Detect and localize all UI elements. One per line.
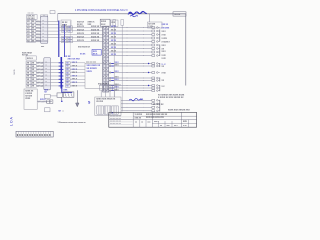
label: wire 5 name [77, 40, 100, 42]
connector Jx pin 9 [152, 55, 160, 57]
connector Jx pin 19 [152, 103, 160, 105]
wire: group1 bottom rule [27, 41, 48, 43]
wire: bus to CN3 row 3 [59, 33, 103, 35]
svg-text:x: x [46, 65, 47, 67]
wire CN1-1 to bus [48, 21, 59, 23]
svg-text:x: x [106, 48, 107, 50]
wire: left drop from rule [57, 14, 59, 22]
label: blue heading above TB2 rows [68, 58, 81, 60]
svg-text:x: x [103, 59, 104, 61]
terminal TB2-7 cells [26, 81, 36, 84]
terminal TB2-4 cells [26, 71, 36, 74]
label: blue feed name [63, 89, 68, 91]
label: wire 2 name [77, 30, 100, 32]
svg-text:x: x [106, 62, 107, 64]
connector CN3 top tab [50, 11, 55, 14]
svg-text:XXX X: XXX X [72, 69, 78, 71]
wire: lower run 3 to J column [109, 72, 152, 74]
note: bottom caption [58, 122, 87, 124]
wire CN1-4 to bus [48, 30, 59, 32]
pin circle lower 4 [109, 77, 111, 79]
svg-text:x: x [103, 27, 104, 29]
svg-text:x: x [46, 81, 47, 83]
wire TB2-5 to CN2 [36, 75, 44, 77]
svg-text:x: x [106, 87, 107, 89]
component K1 box [61, 20, 71, 27]
svg-text:XXX X: XXX X [72, 85, 78, 87]
wire TB2-4 to CN2 [36, 72, 44, 74]
label: row 8 wire name [72, 85, 78, 87]
pin circle lower 8 [109, 90, 111, 92]
pin circle lower 7 [109, 87, 111, 89]
wire CN2-8 to bus [50, 85, 59, 87]
svg-text:XX XX: XX XX [111, 26, 117, 28]
note: text line 2 [158, 97, 184, 99]
svg-text:x: x [46, 84, 47, 86]
svg-text:XXX XXXX XX: XXX XXXX XX [78, 46, 91, 48]
pin circle lower 5 [109, 80, 111, 82]
label: U1 header above box [86, 62, 96, 64]
svg-text:XX XX: XX XX [22, 55, 29, 57]
wire: lower run 5 to J column [109, 80, 152, 82]
pin box row1 b [68, 26, 73, 29]
pin dash blue 8 [59, 85, 64, 87]
svg-text:XXX-X: XXX-X [27, 58, 34, 60]
svg-text:x: x [106, 52, 107, 54]
label: right net name 12 [162, 48, 165, 50]
svg-text:x: x [103, 76, 104, 78]
svg-text:x: x [46, 78, 47, 80]
cable marker W1 [113, 20, 116, 26]
bus: vertical blue cable A upper [58, 21, 60, 58]
node: blue handwritten mark [128, 11, 147, 16]
label: wire tag right of CN3 row 8 [111, 51, 117, 53]
wire: blue feed L-bend [62, 85, 72, 93]
svg-text:XXX XX: XXX XX [135, 118, 142, 120]
label: right net name 1 [162, 24, 169, 26]
connector CN4 pins [47, 100, 53, 104]
wire: P1 to U1 [70, 62, 85, 64]
wire: CN3 row 2 to J column [109, 30, 152, 32]
wire: TR cell drop 3 [109, 90, 111, 97]
wire: P7 to U1 [70, 82, 85, 84]
svg-text:XXXX XX: XXXX XX [91, 37, 100, 39]
svg-text:xx: xx [160, 125, 162, 127]
svg-text:xx x: xx x [174, 125, 178, 127]
pin box P6 [66, 78, 71, 81]
label: blue wire tag [40, 99, 46, 101]
label: wire tag right of CN3 row 4 [111, 37, 117, 39]
svg-text:x: x [106, 69, 107, 71]
component F1 box [45, 94, 51, 98]
connector Jx pin 20 [152, 106, 160, 108]
svg-text:XX XX: XX XX [111, 54, 117, 56]
label: lower run tag 4 [115, 77, 120, 79]
pin circle lower 3 [109, 72, 111, 74]
cable bundle line W1 [113, 25, 115, 97]
wire: P8 to U1 [70, 85, 85, 87]
label: lower run tag 1 [115, 62, 120, 64]
label: blue note below bus [65, 56, 72, 58]
wire TB1-4 to CN1 [36, 30, 41, 32]
pin dash blue 5 [59, 75, 64, 77]
wire TB2-3 to CN2 [36, 68, 44, 70]
wire: TR cell drop 1 [100, 90, 102, 97]
wire TB1-2 to CN1 [36, 24, 41, 26]
legend box NOTE1 [24, 89, 37, 109]
label: right net name 6 [162, 55, 167, 57]
wire: CN3 row 1 to J column [109, 27, 152, 29]
wire CN2-1 to bus [50, 62, 59, 64]
wire: P4 to U1 [70, 72, 85, 74]
pin box row2 b [68, 29, 73, 32]
pin dash blue 4 [59, 72, 64, 74]
svg-text:XXX XX: XXX XX [77, 26, 85, 28]
pin dash blue lower 2 [111, 65, 114, 67]
label: lower run tag 3 [115, 71, 120, 73]
wire: feeder above TR cells [100, 84, 121, 86]
svg-text:x: x [106, 38, 107, 40]
label: lower run tag 6 [115, 84, 120, 86]
svg-text:XX XX: XX XX [111, 51, 117, 53]
label: right net name 9 [162, 86, 166, 88]
svg-text:x: x [103, 41, 104, 43]
connector Jx pin 14 [152, 80, 160, 82]
wire CN1-5 to bus [48, 33, 59, 35]
pin box row4 b [68, 40, 73, 43]
pin circle lower 6 [109, 85, 111, 87]
svg-text:x: x [103, 45, 104, 47]
terminal TB1-2 cells [27, 23, 36, 26]
label: bottom small note blue [58, 111, 64, 113]
svg-text:x: x [106, 59, 107, 61]
connector Jx pin 6 [152, 44, 160, 46]
note: text line 3 [153, 104, 164, 106]
svg-text:x: x [43, 20, 44, 22]
pin box row4 a [62, 40, 67, 43]
svg-text:XXXX XX: XXXX XX [91, 40, 100, 42]
terminal TB2-8 cells [26, 85, 36, 88]
svg-text:x: x [46, 75, 47, 77]
svg-text:XXXX XXX XXXX XXX: XXXX XXX XXXX XXX [146, 117, 165, 119]
connector group bar 3 [159, 63, 161, 67]
label: right net name 14 [162, 58, 167, 60]
svg-text:x: x [103, 52, 104, 54]
label: row 2 wire name [72, 66, 78, 68]
note: text line 1 [158, 95, 185, 97]
svg-text:xxx: xxx [167, 125, 170, 127]
connector CN3 body [103, 26, 109, 92]
node: blue dot under S1 [61, 100, 63, 102]
terminal TB1-3 cells [27, 26, 36, 29]
pin box P4 [66, 71, 71, 74]
connector Jx pin 3 [152, 34, 160, 36]
connector CN1 top cap [41, 15, 48, 18]
svg-text:x: x [103, 66, 104, 68]
pin box P5 [66, 75, 71, 78]
wire TB1-5 to CN1 [36, 33, 41, 35]
label: wire tag right of CN3 row 5 [111, 40, 117, 42]
label: blue cluster box lower-mid [92, 50, 101, 56]
svg-text:XX XXX: XX XXX [27, 18, 35, 20]
connector CN2 body [44, 58, 51, 90]
wire: CN3 row 5 to J column [109, 41, 152, 43]
svg-text:X XXXX XX XXX XXXXX XX: X XXXX XX XXX XXXXX XX [158, 97, 184, 99]
label: right net name 10 [162, 38, 168, 40]
terminal TB1-6 cells [27, 36, 36, 39]
wire: box K4 row 2 to J column [121, 103, 152, 105]
svg-text:x: x [106, 66, 107, 68]
label: right net name 4 [162, 34, 167, 36]
pin dash blue lower 7 [111, 87, 114, 89]
svg-text:x: x [106, 76, 107, 78]
wire TB2-1 to CN2 [36, 62, 44, 64]
wire: box K4 row 4 to J column [121, 110, 152, 112]
terminal block TB2 header box [26, 56, 36, 60]
wire: bus to CN3 row 4 [59, 37, 103, 39]
pin dash blue lower 4 [111, 77, 114, 79]
connector group bar 2 [159, 45, 161, 57]
wire: CN3 row 8 to J column [109, 51, 152, 53]
svg-text:XXX X: XXX X [72, 75, 78, 77]
svg-text:XX-XX: XX-XX [174, 14, 181, 16]
svg-text:XXX XX: XXX XX [77, 30, 85, 32]
svg-text:XX X: XX X [93, 54, 98, 56]
svg-text:XX XXXX: XX XXXX [162, 27, 170, 29]
label: right net name 11 [162, 41, 171, 43]
pin dash blue lower 8 [111, 90, 114, 92]
pin box row2 a [62, 29, 67, 32]
connector Jx pin 2 [152, 30, 160, 32]
wire: P3 to U1 [70, 68, 85, 70]
svg-text:x: x [43, 30, 44, 32]
svg-text:x: x [106, 73, 107, 75]
title block horizontal dividers [109, 116, 197, 123]
connector CN1 body [41, 16, 48, 43]
svg-text:XXXX: XXXX [25, 98, 31, 100]
svg-text:x: x [103, 48, 104, 50]
label: wire 4 name [77, 37, 100, 39]
terminal TB1-4 cells [27, 30, 36, 33]
svg-text:XX XX: XX XX [111, 30, 117, 32]
wire: CN3 row 3 to J column [109, 34, 152, 36]
wire: lower run 1 to J column [109, 63, 152, 65]
svg-text:XX-X: XX-X [101, 24, 106, 26]
wire TB1-1 to CN1 [36, 21, 41, 23]
connector Jx pin 15 [152, 85, 160, 87]
label: right net name 3 [162, 31, 167, 33]
svg-text:XX XXX XX: XX XXX XX [153, 104, 164, 106]
component F2 box [45, 108, 51, 112]
svg-text:x: x [106, 90, 107, 92]
svg-text:X XXX: X XXX [162, 38, 168, 40]
connector group bar 4 [159, 78, 161, 82]
pin dash blue 2 [59, 65, 64, 67]
connector Jx pin 21 [152, 110, 160, 112]
label: right net name 13 [162, 51, 167, 53]
pin box row3 b [68, 36, 73, 39]
wire CN2-2 to bus [50, 65, 59, 67]
wire: bus to CN3 row 5 [59, 40, 103, 42]
junction ticks on wires [127, 27, 144, 111]
title block main title text [146, 114, 168, 119]
svg-text:LOA: LOA [9, 116, 13, 126]
pin dash blue lower 5 [111, 80, 114, 82]
svg-text:XX XX: XX XX [111, 40, 117, 42]
svg-text:11 XXXX: 11 XXXX [135, 114, 143, 116]
svg-text:x: x [106, 45, 107, 47]
wire: drop to J5 area [149, 14, 151, 22]
wire: right border vertical [185, 14, 187, 86]
svg-text:XX XXXXX: XX XXXXX [87, 68, 98, 70]
terminal TB2-6 cells [26, 78, 36, 81]
fuse bank cell 1 [97, 106, 104, 114]
wire: NOTE1 out with hatching [37, 101, 52, 103]
wire: drop from S1 [61, 97, 63, 100]
wire CN2-4 to bus [50, 72, 59, 74]
title block lower cells text [135, 121, 188, 127]
pin dash blue lower 1 [111, 63, 114, 65]
pin box P2 [66, 65, 71, 68]
pin box P3 [66, 68, 71, 71]
connector Jx pin 16 [152, 87, 160, 89]
wire CN1-3 to bus [48, 27, 59, 29]
wire: P6 to U1 [70, 78, 85, 80]
svg-text:x: x [43, 23, 44, 25]
pin dash blue lower 3 [111, 72, 114, 74]
label: S-mark left of K4 [88, 101, 91, 105]
svg-text:XXX XX: XXX XX [77, 33, 85, 35]
connector Jx pin 1 [152, 27, 160, 29]
wire: CN3 row 7 to J column [109, 48, 152, 50]
cable marker W2 [121, 20, 124, 26]
label: right net name 15 [162, 64, 167, 66]
terminal TB1-7 cells [27, 39, 36, 42]
svg-text:x: x [106, 80, 107, 82]
label: U1 text [87, 65, 101, 73]
connector Jx pin 17 [152, 90, 160, 92]
contact S1 box [57, 93, 62, 97]
wire: lower run 7 to J column [109, 87, 152, 89]
label: lower run tag 7 [115, 87, 120, 89]
title block signature rows [110, 116, 133, 126]
contact S2 box with hatch [63, 92, 74, 97]
label: row 3 wire name [72, 69, 78, 71]
svg-text:XX XXX: XX XXX [96, 101, 104, 103]
pin box row3 a [62, 36, 67, 39]
svg-text:XX XX: XX XX [80, 53, 86, 55]
svg-text:x: x [106, 34, 107, 36]
wire TB2-2 to CN2 [36, 65, 44, 67]
svg-text:XXX X: XXX X [72, 82, 78, 84]
pin box P8 [66, 85, 71, 88]
wire: CN3 row 9 to J column [109, 55, 152, 57]
label: lower run tag 8 [115, 89, 120, 91]
label: note above TB1 [28, 12, 34, 14]
svg-text:x: x [43, 39, 44, 41]
svg-text:XXX X: XXX X [72, 66, 78, 68]
terminal TB2-2 cells [26, 65, 36, 68]
wire: P5 to U1 [70, 75, 85, 77]
label: row 5 wire name [72, 75, 78, 77]
svg-text:XXX X: XXX X [40, 99, 46, 101]
label: right net name 7 [162, 66, 165, 68]
svg-text:x: x [106, 55, 107, 57]
svg-text:x: x [103, 80, 104, 82]
svg-text:XXX XXXX XX: XXX XXXX XX [87, 65, 101, 67]
svg-text:XXXX XX: XXXX XX [91, 33, 100, 35]
connector Jx pin 12 [152, 72, 160, 74]
svg-text:x: x [103, 31, 104, 33]
connector Jx pin 11 [152, 65, 160, 67]
revision strip box [16, 131, 53, 137]
svg-text:XXX X: XXX X [72, 62, 78, 64]
pin dash blue 6 [59, 78, 64, 80]
svg-text:XXX X: XXX X [72, 79, 78, 81]
terminal TB2-5 cells [26, 75, 36, 78]
svg-text:xx: xx [141, 122, 143, 124]
wire CN2-5 to bus [50, 75, 59, 77]
wire: P2 to U1 [70, 65, 85, 67]
wire: bus to CN3 row 2 [59, 30, 103, 32]
label: right net name 5 [162, 45, 167, 47]
label: wire tag right of CN3 row 9 [111, 54, 117, 56]
svg-text:x: x [106, 41, 107, 43]
wire CN2-7 to bus [50, 82, 59, 84]
label: lower run tag 5 [115, 79, 120, 81]
wire: lower run 2 to J column [109, 65, 152, 67]
svg-text:x: x [103, 34, 104, 36]
pin dash blue 1 [59, 62, 64, 64]
wire TB1-6 to CN1 [36, 37, 41, 39]
label: row 4 wire name [72, 72, 78, 74]
svg-text:XXX XX XXX: XXX XX XXX [68, 58, 81, 60]
distribution box K4 [95, 97, 121, 115]
label: wire 1 name [77, 26, 100, 28]
svg-text:x: x [46, 71, 47, 73]
label: wire tag right of CN3 row 1 [111, 26, 117, 28]
connector group bar 1 [159, 30, 161, 42]
svg-text:XX XX: XX XX [111, 47, 117, 49]
terminal TB2-1 cells [26, 61, 36, 64]
svg-text:xxx x: xxx x [154, 121, 159, 123]
title block outer frame [109, 112, 197, 127]
svg-text:XXX XXXX XXXX XXX XX: XXX XXXX XXXX XXX XX [146, 114, 168, 116]
connector Jx pin 10 [152, 63, 160, 65]
pin dash blue 7 [59, 82, 64, 84]
component K2 box [111, 20, 118, 27]
note: text line 4 [168, 109, 190, 111]
pin dash blue lower 6 [111, 85, 114, 87]
svg-text:XX XX: XX XX [111, 44, 117, 46]
terminal TB2-3 cells [26, 68, 36, 71]
label: right net name 8 [162, 80, 165, 82]
component box J5 [148, 22, 163, 28]
svg-text:4 PIN WIRE CONN DIAGRAM FOR PA: 4 PIN WIRE CONN DIAGRAM FOR PANEL NO.2 X [75, 9, 128, 12]
svg-text:xx xxx xxx xx: xx xxx xxx xx [110, 123, 121, 125]
svg-text:xxx xxx: xxx xxx [28, 12, 34, 14]
label: right net name 16 [162, 72, 167, 74]
svg-text:XXX XX: XXX XX [77, 40, 85, 42]
svg-text:XXX: XXX [63, 89, 68, 91]
pin box P1 [66, 62, 71, 65]
wire: box K4 row 1 to J column [121, 99, 152, 101]
svg-text:XXX X: XXX X [72, 72, 78, 74]
node dots blue [148, 63, 149, 86]
wire: CN3 row 4 to J column [109, 37, 152, 39]
wire: lower run 4 to J column [109, 77, 152, 79]
wire CN2-3 to bus [50, 68, 59, 70]
